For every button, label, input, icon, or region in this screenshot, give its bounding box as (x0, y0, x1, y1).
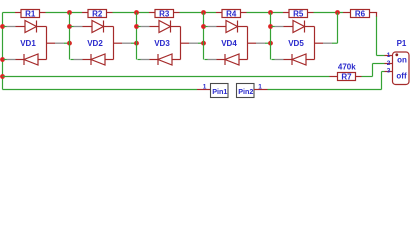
resistor R1 (21, 9, 40, 18)
wire VD1 upper cathode lead (37, 26, 47, 28)
svg-text:2: 2 (387, 60, 391, 67)
wire Pin2 lead (254, 89, 268, 91)
wire top rail segment 1 (46, 12, 83, 14)
wire VD5 lower anode lead (306, 59, 315, 61)
svg-text:3: 3 (387, 68, 391, 75)
junction node 3 upper-diode tap (134, 24, 139, 29)
wire VD4 lower anode lead (239, 59, 248, 61)
svg-text:R4: R4 (226, 9, 237, 18)
diode VD3 upper (pointing right) (159, 21, 171, 33)
P1 position marker dot (395, 53, 398, 56)
wire VD3 lower cathode lead (138, 59, 159, 61)
svg-text:R1: R1 (25, 9, 36, 18)
wire R5 right lead (308, 12, 314, 14)
junction node 4 upper-diode tap (201, 24, 206, 29)
label P1 on (397, 55, 407, 64)
svg-text:R2: R2 (92, 9, 103, 18)
wire R1 right lead (40, 12, 46, 14)
junction top rail node 4 (268, 10, 273, 15)
wire top rail segment 4 (247, 12, 284, 14)
junction top rail node 3 (201, 10, 206, 15)
wire VD5 lower cathode lead (272, 59, 293, 61)
wire R6 down to P1 pin 1 (377, 17, 385, 56)
svg-text:VD5: VD5 (288, 39, 304, 48)
wire VD3 lower anode lead (172, 59, 181, 61)
wire VD2 right elbow vertical (113, 27, 115, 60)
label Pin2 pin number 1 (258, 84, 262, 91)
wire Pin1 lead (197, 89, 211, 91)
terminal Pin1 (211, 84, 229, 98)
wire VD3 elbow to node 3 (181, 42, 204, 44)
wire VD5 upper cathode lead (305, 26, 315, 28)
wire VD4 lower cathode lead (205, 59, 226, 61)
wire R6 right lead and corner (370, 13, 378, 18)
wire VD5 upper anode lead (272, 26, 294, 28)
label VD2 (87, 39, 103, 48)
label P1 pin number 2 (387, 60, 391, 67)
label P1 off (396, 71, 407, 80)
wire left vertical bus (node A) (2, 13, 4, 90)
junction node 2 upper-diode tap (67, 24, 72, 29)
svg-text:1: 1 (203, 84, 207, 91)
diode VD4 lower (pointing left) (225, 54, 239, 65)
wire VD2 lower anode lead (105, 59, 114, 61)
wire VD5 elbow to node 5 (315, 42, 338, 44)
svg-text:1: 1 (387, 52, 391, 59)
junction node 2 elbow joint (67, 41, 72, 46)
wire R7 left lead (330, 76, 338, 78)
wire VD2 elbow to node 2 (114, 42, 137, 44)
wire top rail left elbow to R1 (3, 12, 16, 14)
wire R2 left lead (82, 12, 88, 14)
label P1 pin number 1 (387, 52, 391, 59)
junction node 1 upper-diode tap (0, 24, 5, 29)
junction node 4 elbow joint (201, 41, 206, 46)
junction top rail node 1 (67, 10, 72, 15)
label VD1 (20, 39, 36, 48)
diode VD2 upper (pointing right) (92, 21, 104, 33)
svg-text:R5: R5 (293, 9, 304, 18)
wire P1 pin 3 stub (385, 71, 393, 73)
wire R3 left lead (149, 12, 155, 14)
wire R2 right lead (107, 12, 113, 14)
wire node 5 vertical (270, 13, 272, 60)
resistor R3 (155, 9, 174, 18)
wire R4 left lead (216, 12, 222, 14)
svg-text:VD1: VD1 (20, 39, 36, 48)
diode VD5 upper (pointing right) (293, 21, 305, 33)
wire R1 left lead (15, 12, 21, 14)
junction top rail node 2 (134, 10, 139, 15)
wire VD2 lower cathode lead (71, 59, 92, 61)
wire VD5 right elbow vertical (314, 27, 316, 60)
wire R4 right lead (241, 12, 247, 14)
wire lower bottom rail left (3, 89, 198, 91)
connector P1 body (393, 52, 410, 85)
wire R6 left lead (343, 12, 351, 14)
wire VD4 right elbow vertical (247, 27, 249, 60)
wire node 6 vertical (up to top rail) (337, 13, 339, 44)
label VD5 (288, 39, 304, 48)
wire P1 pin 1 stub (385, 55, 393, 57)
wire lower bottom rail right (268, 89, 382, 91)
wire VD1 upper anode lead (4, 26, 26, 28)
label P1 pin number 3 (387, 68, 391, 75)
resistor R6 (351, 9, 370, 18)
wire top rail segment 5 (314, 12, 344, 14)
wire VD4 upper cathode lead (238, 26, 248, 28)
svg-text:R3: R3 (159, 9, 170, 18)
junction node A upper bottom rail tap (0, 74, 5, 79)
wire VD3 upper anode lead (138, 26, 160, 28)
label VD4 (221, 39, 237, 48)
wire P1 pin 2 stub (385, 63, 393, 65)
terminal Pin2 (237, 84, 255, 98)
wire R7 right lead (356, 76, 362, 78)
resistor R4 (222, 9, 241, 18)
wire VD3 right elbow vertical (180, 27, 182, 60)
wire VD3 upper cathode lead (171, 26, 181, 28)
wire top rail segment 3 (180, 12, 217, 14)
wire node 4 vertical (203, 13, 205, 60)
wire R7 to P1 pin 2 (362, 64, 385, 77)
svg-text:Pin2: Pin2 (238, 87, 253, 96)
wire lower rail riser to P1 pin 3 (382, 72, 385, 90)
junction node 5 elbow joint (268, 41, 273, 46)
diode VD3 lower (pointing left) (158, 54, 172, 65)
label VD3 (154, 39, 170, 48)
wire VD1 lower cathode lead (4, 59, 25, 61)
junction node 3 elbow joint (134, 41, 139, 46)
wire node 2 vertical (69, 13, 71, 60)
diode VD5 lower (pointing left) (292, 54, 306, 65)
junction top rail node 5 (335, 10, 340, 15)
wire VD2 upper cathode lead (104, 26, 114, 28)
svg-text:R7: R7 (341, 72, 352, 81)
wire upper bottom rail (3, 76, 330, 78)
diode VD4 upper (pointing right) (226, 21, 238, 33)
wire VD2 upper anode lead (71, 26, 93, 28)
label P1 (397, 39, 407, 48)
diode VD1 upper (pointing right) (25, 21, 37, 33)
wire VD1 right elbow vertical (46, 27, 48, 60)
label Pin1 pin number 1 (203, 84, 207, 91)
wire node 3 vertical (136, 13, 138, 60)
diode VD1 lower (pointing left) (24, 54, 38, 65)
diode VD2 lower (pointing left) (91, 54, 105, 65)
resistor R7 (338, 72, 356, 81)
wire top rail segment 2 (113, 12, 150, 14)
svg-text:470k: 470k (338, 63, 356, 72)
svg-text:off: off (396, 71, 407, 80)
svg-text:VD2: VD2 (87, 39, 103, 48)
resistor R2 (88, 9, 107, 18)
junction node A lower-diode tap (0, 57, 5, 62)
wire R5 left lead (283, 12, 289, 14)
wire VD4 upper anode lead (205, 26, 227, 28)
svg-text:P1: P1 (397, 39, 407, 48)
svg-text:Pin1: Pin1 (212, 87, 227, 96)
wire VD4 elbow to node 4 (248, 42, 271, 44)
wire VD1 lower anode lead (38, 59, 47, 61)
svg-text:R6: R6 (355, 9, 366, 18)
svg-text:on: on (397, 55, 407, 64)
junction node 5 upper-diode tap (268, 24, 273, 29)
resistor R5 (289, 9, 308, 18)
wire R3 right lead (174, 12, 180, 14)
label R7 value 470k (338, 63, 356, 72)
svg-text:VD4: VD4 (221, 39, 237, 48)
svg-text:VD3: VD3 (154, 39, 170, 48)
wire VD1 elbow to node 1 (47, 42, 70, 44)
